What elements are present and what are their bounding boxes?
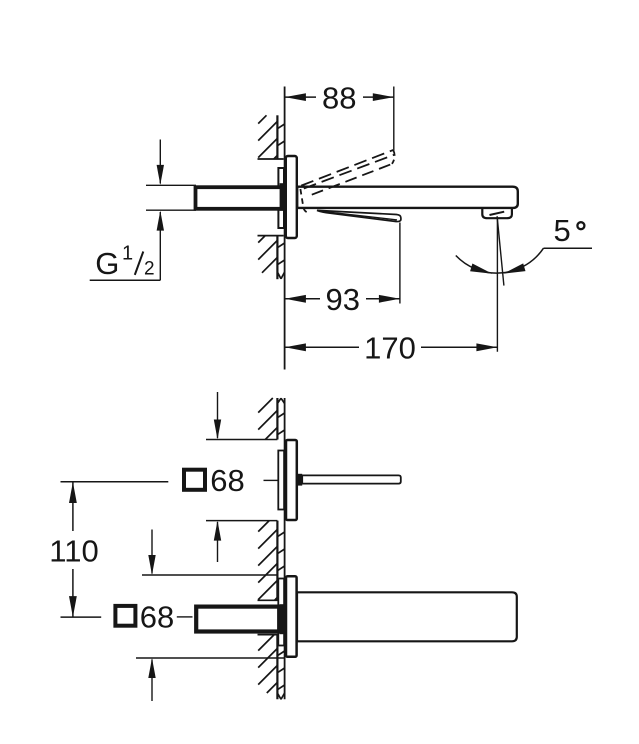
escutcheon (side view) — [286, 156, 297, 238]
wall hatching (front view) — [258, 398, 284, 699]
dimension 170 — [285, 331, 498, 366]
svg-text:1: 1 — [122, 242, 133, 264]
in-wall mounting flange (side view) — [278, 168, 284, 228]
supply pipe (front view, spout unit) — [196, 607, 279, 632]
label G 1/2 — [95, 242, 154, 281]
spout (front view) — [297, 592, 517, 641]
dimension square-68 (spout unit) — [115, 530, 284, 702]
svg-text:88: 88 — [322, 81, 356, 116]
5-degree angular dimension arc — [456, 248, 592, 274]
svg-text:170: 170 — [364, 331, 416, 366]
wall hole edges (front view, spout unit) — [258, 600, 284, 634]
aerator / mousseur — [482, 208, 512, 218]
svg-text:68: 68 — [140, 600, 174, 635]
supply pipe thread stub G1/2 — [146, 185, 196, 210]
wall inner line (front view) — [276, 398, 278, 699]
spout (side view) — [297, 187, 518, 208]
escutcheon (front view, mixer unit) — [286, 440, 297, 520]
wall face line (side view) / extension line of dims 88-93-170 — [284, 87, 286, 370]
pipe passage (solid section) — [280, 183, 287, 211]
dimension 88 — [285, 81, 394, 151]
svg-text:2: 2 — [144, 259, 155, 280]
dimension square-68 (mixer unit) — [184, 392, 278, 562]
svg-text:G: G — [95, 246, 119, 281]
svg-text:110: 110 — [49, 534, 98, 569]
water stream centreline — [496, 219, 498, 351]
pipe passage solid section (front view) — [280, 604, 287, 634]
wall face line (front view) — [284, 398, 286, 699]
dimension G 1/2 leader — [90, 140, 164, 281]
lever handle (front view) — [297, 474, 401, 486]
wall hatching (side view) — [258, 115, 284, 278]
wall hatch V end — [277, 272, 281, 279]
wall hole edges (side view) — [258, 159, 284, 236]
lever handle open position (dashed) — [300, 150, 394, 213]
label 5 degrees — [554, 213, 585, 248]
water stream 5-degree line — [497, 216, 504, 285]
wall hatch V ends — [277, 398, 281, 403]
supply pipe body (side view) — [196, 187, 282, 209]
concealed body flange (front view, mixer unit) — [278, 451, 284, 510]
escutcheon (front view, spout unit) — [286, 576, 297, 657]
lever handle closed position (solid wedge) — [317, 210, 401, 221]
svg-text:93: 93 — [326, 282, 360, 317]
svg-text:5: 5 — [554, 213, 571, 248]
dimension 93 — [285, 223, 400, 318]
dimension 110 — [49, 482, 168, 617]
wall inner line (side view) — [276, 115, 278, 279]
svg-text:68: 68 — [210, 463, 244, 498]
concealed flange (front view, spout unit) — [278, 579, 284, 646]
